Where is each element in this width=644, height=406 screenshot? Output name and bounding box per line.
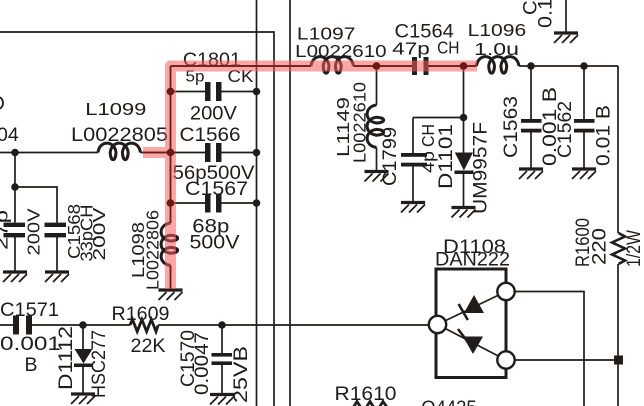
svg-text:47p: 47p: [392, 38, 430, 58]
svg-text:1/2W: 1/2W: [623, 230, 644, 267]
svg-text:L0022610: L0022610: [295, 41, 387, 61]
svg-text:220: 220: [588, 228, 610, 265]
svg-text:200V: 200V: [190, 102, 237, 124]
svg-text:C1563: C1563: [500, 96, 522, 158]
svg-text:C1566: C1566: [180, 124, 241, 146]
svg-text:0.001: 0.001: [0, 333, 61, 355]
svg-text:HSC277: HSC277: [88, 330, 110, 398]
svg-text:UM9957F: UM9957F: [469, 122, 491, 214]
svg-text:27p: 27p: [0, 210, 11, 250]
svg-text:Q4425: Q4425: [421, 397, 477, 406]
svg-text:C1567: C1567: [185, 178, 248, 200]
svg-text:L0022806: L0022806: [142, 210, 162, 290]
svg-text:04: 04: [0, 124, 19, 146]
svg-text:0.0047: 0.0047: [191, 332, 213, 395]
svg-text:R1610: R1610: [334, 383, 396, 405]
svg-text:L0022610: L0022610: [350, 82, 370, 163]
svg-text:CH: CH: [437, 38, 459, 58]
svg-text:D1112: D1112: [55, 326, 77, 390]
svg-text:0.01 B: 0.01 B: [593, 105, 615, 166]
svg-text:200V: 200V: [23, 208, 43, 255]
svg-text:500V: 500V: [189, 231, 239, 253]
svg-text:L0022805: L0022805: [71, 124, 168, 146]
svg-text:0.1: 0.1: [535, 0, 557, 28]
svg-text:200V: 200V: [89, 207, 109, 260]
svg-text:22K: 22K: [130, 335, 165, 357]
svg-text:B: B: [24, 354, 37, 376]
svg-text:DAN222: DAN222: [435, 249, 510, 271]
svg-text:C1562: C1562: [554, 101, 576, 158]
svg-text:1.0u: 1.0u: [474, 39, 519, 59]
svg-text:R1609: R1609: [111, 303, 169, 325]
svg-text:25VB: 25VB: [230, 346, 252, 403]
svg-text:C1571: C1571: [0, 299, 59, 321]
svg-text:C1799: C1799: [379, 127, 401, 186]
svg-text:L1096: L1096: [468, 20, 527, 40]
svg-text:D1101: D1101: [435, 124, 457, 189]
svg-text:L1099: L1099: [85, 99, 146, 119]
